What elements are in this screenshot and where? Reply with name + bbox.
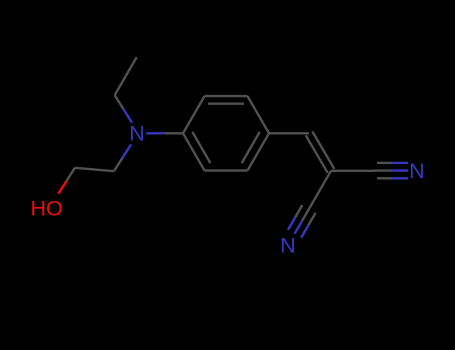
nitrile C1#N1 triple bond top line nitrogen half <box>392 162 408 164</box>
vinyl C=C double bond line 2 <box>306 135 328 173</box>
wire: CH2b-O bond carbon half <box>67 168 75 181</box>
svg-text:N: N <box>409 159 425 183</box>
svg-text:N: N <box>280 234 296 258</box>
wire: ethyl CH2-N bond carbon half <box>115 95 124 109</box>
nitrile C2#N2 triple bond left line carbon half <box>295 205 302 217</box>
nitrile C1#N1 triple bond middle line carbon half <box>375 169 392 171</box>
vinyl C=C double bond line 1 <box>312 131 334 169</box>
benzene ring edge V3-V4 <box>248 96 270 133</box>
nitrile C1#N1 triple bond bottom line carbon half <box>377 177 392 179</box>
wire: aryl-CH vinyl bond <box>269 132 309 134</box>
wire: N-CH2a bond nitrogen half <box>123 144 132 157</box>
benzene ring edge V2-V3 <box>205 95 248 97</box>
benzene ring edge V1-V2 <box>183 96 205 133</box>
wire: C*-C2 bond to lower nitrile <box>309 171 331 209</box>
nitrile C2#N2 triple bond left line nitrogen half <box>288 217 295 229</box>
benzene inner double bond line top V2-V3 <box>208 102 244 104</box>
wire: CH2b-O bond oxygen half <box>58 181 66 194</box>
nitrile C2#N2 triple bond middle line carbon half <box>302 209 309 221</box>
wire: N-aryl bond nitrogen half <box>146 132 164 134</box>
wire: N-aryl bond carbon half <box>164 132 183 134</box>
wire: CH2a-CH2b bond <box>75 168 114 171</box>
nitrile C1#N1 triple bond top line carbon half <box>377 162 392 164</box>
nitrile C2#N2 triple bond right line nitrogen half <box>301 225 308 237</box>
nitrile C1#N1 triple bond middle line nitrogen half <box>392 169 408 171</box>
wire: ethyl CH2-N bond nitrogen half <box>123 109 132 123</box>
benzene inner double bond line left V6-V1 <box>192 132 210 163</box>
benzene ring edge V5-V6 <box>205 169 248 171</box>
svg-text:HO: HO <box>30 197 62 221</box>
benzene inner double bond line right V4-V5 <box>242 132 260 163</box>
wire: ethyl CH3-CH2 bond <box>115 57 137 95</box>
benzene ring edge V6-V1 <box>183 133 205 170</box>
wire: N-CH2a bond carbon half <box>114 158 123 171</box>
nitrile C1#N1 triple bond bottom line nitrogen half <box>392 177 408 179</box>
svg-text:N: N <box>129 122 145 146</box>
benzene ring edge V4-V5 <box>248 133 270 170</box>
nitrile C2#N2 triple bond right line carbon half <box>308 213 315 225</box>
wire: C*-C1 bond to right nitrile <box>331 170 375 172</box>
nitrile C2#N2 triple bond middle line nitrogen half <box>295 221 302 233</box>
